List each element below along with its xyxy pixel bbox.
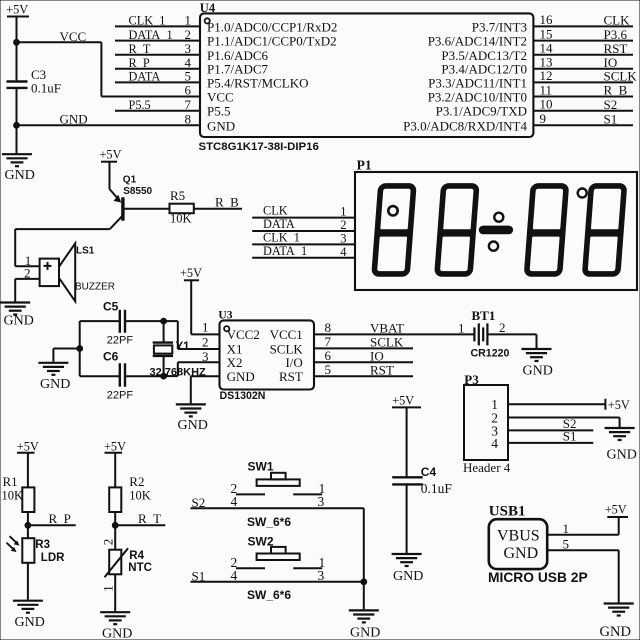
svg-text:0.1uF: 0.1uF bbox=[31, 81, 61, 96]
svg-text:VCC1: VCC1 bbox=[270, 327, 303, 342]
pin-1 marker circle U3 bbox=[224, 326, 229, 331]
svg-text:P3: P3 bbox=[464, 372, 479, 387]
buzzer LS1 bbox=[40, 243, 76, 301]
wire crystal bottom elbow to X2 bbox=[164, 362, 220, 376]
wire R5 to net R B bbox=[194, 208, 242, 210]
svg-text:P3.1/ADC9/TXD: P3.1/ADC9/TXD bbox=[436, 104, 527, 119]
svg-text:1: 1 bbox=[340, 205, 346, 219]
svg-text:RST: RST bbox=[279, 369, 303, 384]
wire R2 top bbox=[114, 453, 116, 488]
power +5V (C4) bbox=[392, 394, 421, 408]
wire P3 pin 4 net S1 bbox=[508, 442, 593, 444]
display P1 box bbox=[355, 172, 637, 290]
svg-text:Header 4: Header 4 bbox=[463, 460, 511, 475]
resistor R1 bbox=[22, 487, 34, 512]
svg-text:2: 2 bbox=[340, 218, 346, 232]
svg-text:P1.6/ADC6: P1.6/ADC6 bbox=[207, 48, 269, 63]
svg-text:22PF: 22PF bbox=[107, 335, 134, 347]
svg-text:+5V: +5V bbox=[17, 440, 39, 454]
svg-text:STC8G1K17-38I-DIP16: STC8G1K17-38I-DIP16 bbox=[199, 141, 319, 153]
svg-text:DS1302N: DS1302N bbox=[220, 390, 266, 402]
svg-text:3: 3 bbox=[318, 494, 325, 509]
svg-text:DATA 1: DATA 1 bbox=[263, 244, 307, 258]
wire U3 pin 6 IO bbox=[314, 361, 413, 363]
svg-text:U4: U4 bbox=[200, 1, 216, 15]
svg-text:CLK: CLK bbox=[604, 13, 631, 28]
wire C5 right bbox=[125, 320, 164, 322]
svg-text:GND: GND bbox=[607, 447, 637, 462]
svg-text:BT1: BT1 bbox=[472, 308, 496, 323]
wire P3 pin 2 to ground bbox=[508, 418, 620, 428]
node crystal bottom junction bbox=[161, 373, 167, 379]
battery BT1 bbox=[474, 323, 487, 345]
switch SW1 symbol bbox=[257, 473, 300, 486]
wire U4 pin 4 bbox=[115, 68, 200, 70]
wire GND net to U4 pin 8 bbox=[17, 124, 201, 126]
wire +5V rail vertical (C3 branch) bbox=[16, 17, 18, 154]
capacitor C3 bbox=[7, 82, 28, 88]
svg-text:1: 1 bbox=[185, 13, 192, 28]
ground (R3) bbox=[13, 601, 43, 613]
ground (buzzer) bbox=[0, 303, 30, 315]
svg-text:GND: GND bbox=[178, 418, 208, 433]
svg-text:10K: 10K bbox=[129, 489, 151, 503]
svg-text:SW_6*6: SW_6*6 bbox=[247, 515, 291, 529]
svg-text:RST: RST bbox=[370, 362, 394, 377]
svg-text:0.1uF: 0.1uF bbox=[421, 481, 453, 496]
svg-text:BUZZER: BUZZER bbox=[75, 282, 115, 293]
wire U4 pin 5 bbox=[115, 81, 200, 83]
power +5V (Q1) bbox=[100, 147, 122, 161]
wire U4 pin 12 bbox=[533, 81, 633, 83]
svg-text:P1: P1 bbox=[357, 158, 372, 173]
svg-text:SCLK: SCLK bbox=[604, 69, 638, 84]
svg-text:+5V: +5V bbox=[104, 440, 126, 454]
wire U4 pin 2 bbox=[115, 40, 200, 42]
svg-text:SW2: SW2 bbox=[248, 535, 274, 549]
ic U4 box bbox=[200, 13, 533, 137]
wire C4 top bbox=[406, 407, 408, 477]
capacitor C6 bbox=[120, 363, 125, 386]
svg-text:10: 10 bbox=[540, 97, 553, 112]
wire U3 pin 5 RST bbox=[314, 375, 413, 377]
ground (C3 rail) bbox=[2, 154, 32, 166]
svg-text:P1.1/ADC1/CCP0/TxD2: P1.1/ADC1/CCP0/TxD2 bbox=[207, 34, 337, 49]
node GND junction bbox=[14, 122, 20, 128]
svg-text:GND: GND bbox=[15, 615, 45, 630]
wire net S1 switch row bbox=[191, 581, 364, 583]
7-seg digit 3 bbox=[524, 186, 569, 274]
wire R1 top bbox=[27, 453, 29, 488]
wire BT1 to ground bbox=[487, 334, 536, 348]
svg-text:GND: GND bbox=[60, 112, 88, 127]
svg-text:GND: GND bbox=[40, 377, 70, 392]
svg-text:VCC: VCC bbox=[60, 29, 87, 44]
svg-text:+5V: +5V bbox=[608, 398, 630, 412]
svg-text:DATA: DATA bbox=[263, 217, 295, 231]
svg-text:GND: GND bbox=[600, 624, 631, 640]
node R P junction bbox=[25, 522, 31, 528]
wire C6 right bbox=[125, 375, 164, 377]
svg-text:2: 2 bbox=[202, 334, 209, 349]
svg-text:R B: R B bbox=[215, 194, 239, 209]
svg-text:+5V: +5V bbox=[6, 3, 28, 17]
svg-text:R P: R P bbox=[129, 56, 150, 70]
svg-text:2: 2 bbox=[101, 539, 116, 546]
svg-text:CLK 1: CLK 1 bbox=[129, 14, 166, 28]
svg-text:Q1: Q1 bbox=[123, 175, 137, 186]
svg-text:P5.4/RST/MCLKO: P5.4/RST/MCLKO bbox=[207, 75, 309, 90]
wire U3 pin 8 VBAT bbox=[314, 333, 474, 335]
power +5V rail top-left bbox=[6, 3, 29, 17]
svg-text:8: 8 bbox=[325, 320, 332, 335]
power +5V (R2) bbox=[104, 440, 126, 454]
svg-text:14: 14 bbox=[540, 41, 554, 56]
node R T junction bbox=[112, 522, 118, 528]
svg-text:5: 5 bbox=[563, 537, 570, 552]
svg-text:P5.5: P5.5 bbox=[207, 104, 230, 119]
wire USB pin 5 bbox=[547, 549, 619, 551]
indicator dot digit 4 bbox=[578, 189, 587, 198]
ground (R4) bbox=[100, 612, 130, 624]
svg-text:R5: R5 bbox=[170, 188, 185, 203]
svg-text:VCC2: VCC2 bbox=[227, 327, 260, 342]
svg-text:3: 3 bbox=[185, 41, 192, 56]
svg-text:1: 1 bbox=[458, 321, 465, 336]
ground (C4) bbox=[392, 554, 422, 566]
svg-text:5: 5 bbox=[185, 69, 192, 84]
wire R3 bottom bbox=[27, 563, 29, 600]
wire U4 pin 13 bbox=[533, 68, 633, 70]
svg-text:5: 5 bbox=[325, 362, 332, 377]
wire P1 pin 1 bbox=[252, 217, 355, 219]
svg-text:U3: U3 bbox=[218, 309, 232, 321]
wire U4 pin 10 bbox=[533, 110, 633, 112]
wire USB ground run bbox=[618, 550, 620, 602]
svg-text:S1: S1 bbox=[604, 112, 618, 127]
svg-text:3: 3 bbox=[318, 568, 325, 583]
wire U3 pin 7 SCLK bbox=[314, 347, 413, 349]
svg-text:LS1: LS1 bbox=[76, 245, 95, 256]
svg-text:S1: S1 bbox=[192, 569, 206, 584]
svg-text:22PF: 22PF bbox=[107, 390, 134, 402]
svg-text:SW1: SW1 bbox=[248, 460, 274, 474]
svg-text:S8550: S8550 bbox=[123, 186, 152, 197]
wire SW1 pin 1 stub bbox=[293, 493, 322, 495]
switch SW2 symbol bbox=[257, 547, 300, 560]
wire C4 bottom bbox=[406, 484, 408, 553]
svg-text:P3.6: P3.6 bbox=[604, 27, 628, 42]
svg-text:R4: R4 bbox=[129, 550, 144, 562]
svg-text:CLK 1: CLK 1 bbox=[263, 231, 300, 245]
ic U3 box bbox=[220, 320, 315, 389]
wire R1 bottom bbox=[27, 512, 29, 538]
connector P3 box bbox=[464, 385, 508, 460]
svg-text:GND: GND bbox=[523, 363, 553, 378]
wire R4 bottom bbox=[114, 574, 116, 611]
svg-text:4: 4 bbox=[340, 245, 347, 259]
svg-text:NTC: NTC bbox=[128, 562, 152, 574]
ground (BT1) bbox=[522, 349, 552, 361]
wire U4 pin 15 bbox=[533, 40, 633, 42]
transistor Q1 bbox=[110, 189, 123, 229]
svg-text:2: 2 bbox=[185, 27, 192, 42]
svg-text:10K: 10K bbox=[2, 489, 24, 503]
svg-text:P3.0/ADC8/RXD/INT4: P3.0/ADC8/RXD/INT4 bbox=[403, 118, 527, 133]
svg-text:P3.7/INT3: P3.7/INT3 bbox=[472, 19, 527, 34]
wire buzzer pin 2 bbox=[15, 279, 39, 302]
svg-text:6: 6 bbox=[185, 83, 192, 98]
svg-text:S2: S2 bbox=[604, 97, 618, 112]
svg-text:SW_6*6: SW_6*6 bbox=[247, 588, 291, 602]
indicator dot digit 1 bbox=[388, 206, 397, 215]
svg-text:2: 2 bbox=[499, 320, 506, 335]
wire net R T bbox=[115, 524, 165, 526]
svg-text:LDR: LDR bbox=[41, 552, 65, 564]
svg-text:12: 12 bbox=[540, 68, 553, 83]
wire crystal top elbow to X1 bbox=[164, 321, 220, 349]
wire P3 pin 1 to +5V bbox=[508, 403, 605, 405]
svg-text:C4: C4 bbox=[421, 465, 437, 479]
wire SW2 pin 2 stub bbox=[236, 567, 265, 569]
svg-text:CLK: CLK bbox=[263, 204, 288, 218]
svg-text:GND: GND bbox=[227, 369, 255, 384]
ground (USB) bbox=[604, 604, 634, 616]
svg-text:4: 4 bbox=[231, 568, 238, 583]
photoresistor R3 bbox=[7, 536, 35, 563]
svg-text:VBUS: VBUS bbox=[497, 528, 540, 545]
svg-text:1: 1 bbox=[101, 585, 116, 592]
wire P1 pin 3 bbox=[252, 243, 355, 245]
power +5V (USB) bbox=[605, 503, 628, 535]
wire switch ground rail bbox=[363, 508, 365, 609]
svg-text:16: 16 bbox=[540, 12, 554, 27]
resistor R2 bbox=[109, 487, 121, 512]
svg-text:GND: GND bbox=[5, 168, 35, 183]
svg-text:4: 4 bbox=[491, 436, 498, 451]
wire P1 pin 4 bbox=[252, 257, 355, 259]
wire U4 pin 7 bbox=[115, 110, 200, 112]
resistor R5 bbox=[170, 204, 194, 214]
svg-text:DATA: DATA bbox=[129, 70, 161, 84]
svg-text:7: 7 bbox=[325, 334, 332, 349]
label C3 value bbox=[31, 67, 61, 96]
ground (U3) bbox=[176, 404, 206, 416]
svg-text:11: 11 bbox=[540, 82, 553, 97]
svg-text:R3: R3 bbox=[35, 539, 50, 551]
svg-text:1: 1 bbox=[563, 521, 570, 536]
svg-text:+5V: +5V bbox=[100, 147, 122, 161]
svg-text:GND: GND bbox=[102, 627, 132, 640]
crystal Y1 bbox=[153, 321, 173, 376]
svg-text:C5: C5 bbox=[103, 299, 119, 313]
thermistor R4 bbox=[105, 548, 129, 577]
capacitor C4 bbox=[392, 477, 423, 484]
node crystal top junction bbox=[161, 318, 167, 324]
svg-text:7: 7 bbox=[185, 97, 192, 112]
svg-text:2: 2 bbox=[24, 265, 31, 280]
svg-text:P3.3/ADC11/INT1: P3.3/ADC11/INT1 bbox=[428, 75, 527, 90]
svg-text:VBAT: VBAT bbox=[370, 321, 404, 336]
node VCC junction bbox=[14, 39, 20, 45]
svg-text:R B: R B bbox=[604, 83, 628, 98]
node S1 junction bbox=[361, 579, 367, 585]
wire U4 pin 16 bbox=[533, 25, 633, 27]
capacitor C5 bbox=[120, 310, 125, 333]
wire net S2 switch row bbox=[191, 507, 364, 509]
ground (crystal rail) bbox=[38, 363, 68, 375]
connector USB1 box bbox=[489, 519, 547, 569]
wire U4 pin 11 bbox=[533, 96, 633, 98]
wire VCC net bbox=[17, 42, 201, 96]
power +5V (U3) bbox=[180, 266, 202, 280]
wire USB pin 1 bbox=[547, 534, 619, 536]
svg-text:3: 3 bbox=[202, 349, 209, 364]
svg-text:IO: IO bbox=[370, 349, 384, 364]
svg-text:4: 4 bbox=[231, 494, 238, 509]
colon indicator bbox=[479, 213, 512, 251]
wire crystal left rail bbox=[79, 321, 81, 376]
svg-text:1: 1 bbox=[202, 320, 209, 335]
svg-text:R T: R T bbox=[129, 42, 151, 56]
7-seg digit 4 bbox=[582, 186, 627, 274]
svg-text:10K: 10K bbox=[170, 212, 192, 226]
wire U4 pin 14 bbox=[533, 54, 633, 56]
svg-text:P3.5/ADC13/T2: P3.5/ADC13/T2 bbox=[441, 48, 527, 63]
wire buzzer pin 1 bbox=[15, 265, 39, 267]
svg-text:8: 8 bbox=[185, 112, 192, 127]
7-seg digit 2 bbox=[434, 186, 479, 274]
svg-text:GND: GND bbox=[504, 545, 539, 562]
svg-text:SCLK: SCLK bbox=[370, 335, 404, 350]
svg-text:VCC: VCC bbox=[207, 90, 234, 105]
svg-text:R2: R2 bbox=[129, 474, 144, 489]
wire U3 pin 4 GND bbox=[191, 376, 220, 403]
wire net R P bbox=[28, 524, 76, 526]
svg-text:RST: RST bbox=[604, 41, 628, 56]
wire R2 bottom bbox=[114, 512, 116, 550]
wire P3 pin 3 net S2 bbox=[508, 429, 593, 431]
svg-text:+5V: +5V bbox=[605, 503, 627, 517]
wire Q1 collector run bbox=[15, 229, 110, 266]
svg-text:GND: GND bbox=[207, 118, 235, 133]
wire U4 pin 3 bbox=[115, 54, 200, 56]
svg-text:9: 9 bbox=[540, 111, 547, 126]
svg-text:+5V: +5V bbox=[180, 266, 202, 280]
pin-1 marker circle U4 bbox=[205, 18, 210, 23]
svg-text:GND: GND bbox=[4, 314, 34, 329]
wire P1 pin 2 bbox=[252, 230, 355, 232]
wire U3 pin 1 VCC2 bbox=[191, 280, 219, 334]
wire SW1 pin 2 stub bbox=[236, 493, 265, 495]
svg-text:MICRO USB 2P: MICRO USB 2P bbox=[488, 570, 588, 585]
wire U4 pin 1 bbox=[115, 25, 200, 27]
svg-text:+5V: +5V bbox=[392, 394, 414, 408]
svg-text:P3.6/ADC14/INT2: P3.6/ADC14/INT2 bbox=[428, 34, 527, 49]
svg-text:USB1: USB1 bbox=[489, 504, 526, 520]
svg-text:C6: C6 bbox=[103, 350, 119, 364]
svg-text:DATA 1: DATA 1 bbox=[129, 28, 173, 42]
node left rail ground tap bbox=[77, 346, 83, 352]
wire C6 left bbox=[80, 375, 120, 377]
wire ground tap bbox=[53, 349, 79, 362]
7-seg digit 1 bbox=[371, 186, 416, 274]
ground (switches) bbox=[349, 610, 379, 622]
power +5V (R1) bbox=[17, 440, 39, 454]
svg-text:P3.2/ADC10/INT0: P3.2/ADC10/INT0 bbox=[428, 90, 527, 105]
svg-text:P1.0/ADC0/CCP1/RxD2: P1.0/ADC0/CCP1/RxD2 bbox=[207, 19, 337, 34]
svg-text:I/O: I/O bbox=[285, 355, 302, 370]
svg-text:R1: R1 bbox=[3, 474, 18, 489]
svg-text:X2: X2 bbox=[227, 355, 243, 370]
wire Q1 base to R5 bbox=[123, 208, 170, 210]
svg-text:Y1: Y1 bbox=[176, 341, 191, 353]
svg-text:R P: R P bbox=[49, 511, 71, 526]
svg-text:6: 6 bbox=[325, 348, 332, 363]
wire SW2 pin 1 stub bbox=[293, 567, 322, 569]
svg-text:S1: S1 bbox=[563, 429, 577, 444]
svg-text:3: 3 bbox=[340, 232, 346, 246]
wire Q1 emitter stem bbox=[109, 162, 111, 189]
svg-text:S2: S2 bbox=[192, 495, 206, 510]
wire C5 left bbox=[80, 320, 120, 322]
svg-text:P5.5: P5.5 bbox=[129, 98, 151, 112]
svg-text:15: 15 bbox=[540, 26, 553, 41]
wire U4 pin 9 bbox=[533, 124, 633, 126]
svg-text:R T: R T bbox=[138, 511, 161, 526]
svg-text:CR1220: CR1220 bbox=[471, 348, 510, 360]
svg-text:GND: GND bbox=[393, 569, 423, 584]
svg-text:GND: GND bbox=[350, 625, 380, 640]
power +5V (P3) bbox=[605, 398, 629, 412]
ground (P3) bbox=[605, 428, 635, 440]
